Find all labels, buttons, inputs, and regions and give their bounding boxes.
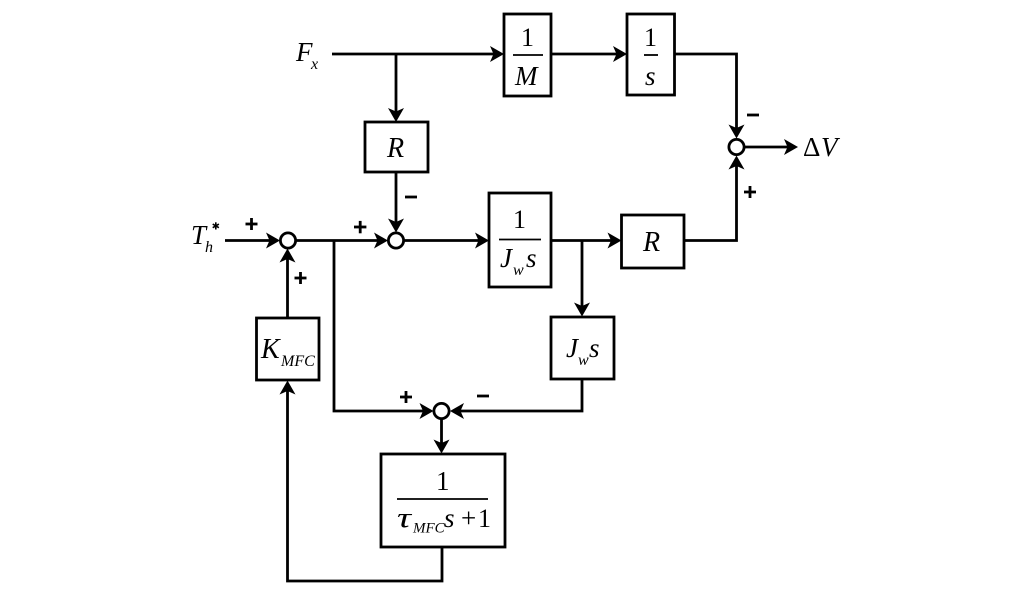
sign minus (Jws into S4)	[477, 395, 489, 398]
block R1 (upper R)	[365, 122, 428, 172]
wire S4 to block tau	[434, 419, 450, 454]
svg-text:s: s	[526, 243, 537, 273]
wire feedback tau block to K_MFC	[280, 381, 443, 582]
svg-text:w: w	[578, 352, 589, 369]
block R2 (lower R)	[622, 215, 685, 268]
svg-text:Δ: Δ	[803, 132, 820, 162]
wire 1/s to sum junction dV	[675, 54, 745, 139]
svg-text:R: R	[642, 227, 660, 258]
svg-text:x: x	[310, 56, 318, 73]
summing junction S3	[388, 233, 403, 248]
label dV (output)	[803, 132, 841, 162]
svg-text:h: h	[205, 239, 213, 256]
svg-text:+: +	[461, 503, 476, 533]
svg-text:K: K	[260, 334, 281, 365]
sign minus (into dV sum from top)	[747, 114, 759, 117]
wire dV output arrow	[744, 139, 798, 155]
wire sum2 to sum3	[296, 233, 388, 249]
wire R2 to dV sum	[684, 156, 745, 241]
svg-text:w: w	[513, 262, 524, 279]
svg-text:J: J	[500, 243, 514, 273]
node branch to lower sum	[334, 241, 434, 420]
label Fx (input force)	[295, 37, 318, 73]
svg-text:R: R	[386, 133, 404, 164]
svg-text:1: 1	[521, 23, 534, 52]
svg-text:τ: τ	[397, 503, 412, 534]
svg-text:M: M	[514, 61, 539, 91]
block Jws	[551, 317, 614, 379]
wire K_MFC to sum2	[280, 249, 296, 319]
summing junction S1 (dV)	[729, 139, 744, 154]
svg-text:V: V	[821, 132, 841, 162]
svg-text:1: 1	[513, 205, 526, 234]
sign plus (into dV sum from bottom)	[744, 186, 756, 198]
svg-text:MFC: MFC	[280, 353, 315, 370]
wire Th* to sum2	[225, 233, 280, 249]
svg-text:MFC: MFC	[412, 521, 446, 537]
sign plus (into S4 from left)	[400, 391, 412, 403]
svg-text:1: 1	[478, 504, 491, 533]
svg-text:s: s	[589, 333, 600, 363]
svg-text:s: s	[645, 61, 656, 91]
svg-text:1: 1	[436, 466, 450, 496]
wire 1/M to block 1/s	[551, 46, 627, 62]
sign plus (into sum3)	[354, 221, 366, 233]
wire Jws to lower sum S4	[450, 379, 582, 419]
wire Fx to block 1/M	[332, 46, 504, 62]
block 1/M	[504, 14, 551, 96]
wire R1 to sum3	[388, 172, 404, 233]
node branch to Jws block	[574, 241, 590, 317]
svg-text:s: s	[444, 503, 455, 533]
block K_MFC (MFC gain)	[257, 318, 320, 380]
node branch on Fx line	[388, 54, 404, 122]
wire 1/Jws to R2	[551, 233, 622, 249]
label Th* (torque command)	[191, 220, 219, 256]
block 1/(tau_MFC s + 1) (MFC filter)	[381, 454, 505, 547]
sign minus (R1 into sum3)	[405, 196, 417, 199]
block 1/s (integrator)	[627, 14, 675, 95]
summing junction S2	[280, 233, 295, 248]
sign plus (K_MFC into sum2)	[295, 272, 307, 284]
wire sum3 to block 1/Jws	[404, 233, 489, 249]
summing junction S4	[434, 403, 449, 418]
svg-text:1: 1	[644, 23, 657, 52]
block 1/Jws (wheel inertia)	[489, 193, 551, 287]
sign plus (Th* into sum2)	[246, 218, 258, 230]
